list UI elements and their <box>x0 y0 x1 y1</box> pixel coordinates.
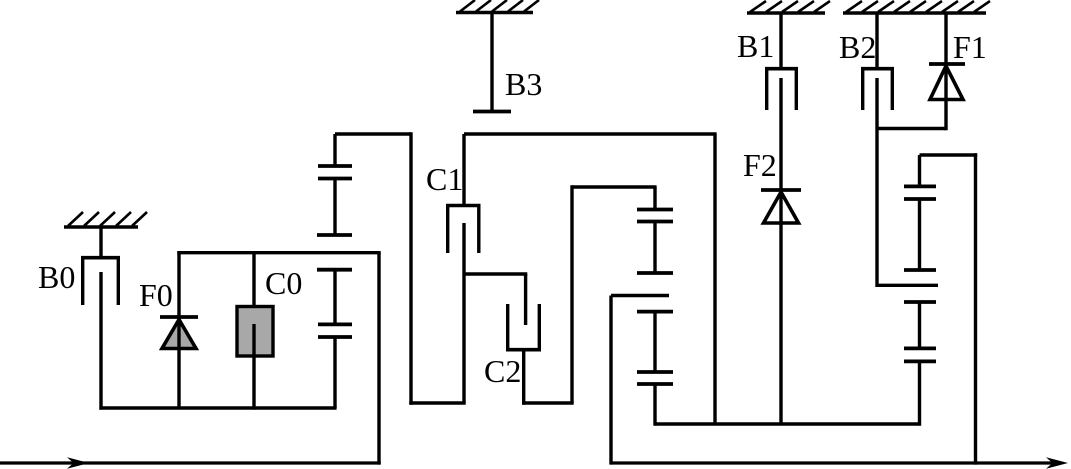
input shaft (arrow) <box>0 457 381 468</box>
brake B3 (stem and plate over rail) <box>473 13 511 112</box>
clutch C2 (upward fork, plate from above) <box>464 274 574 405</box>
one-way clutch F2 <box>761 190 801 224</box>
brake B1 (fork and plate) <box>765 13 798 424</box>
one-way clutch F1 <box>929 13 965 130</box>
ground (B1 anchor) <box>747 1 830 13</box>
output shaft (arrow) <box>611 457 1068 468</box>
node (ring link to output, x=611) <box>611 296 669 465</box>
ground (B3 anchor) <box>456 0 539 13</box>
svg-text:B1: B1 <box>737 28 774 64</box>
one-way clutch F0 (gray) <box>160 251 198 408</box>
clutch pack column (left, x=335) <box>317 134 411 408</box>
wire (riser x=411 and bottom jog to C1 plate) <box>409 132 465 404</box>
clutch pack column (middle, x=655) <box>637 187 673 426</box>
svg-text:B0: B0 <box>38 259 75 295</box>
svg-text:B3: B3 <box>505 66 542 102</box>
wire (riser x=715 from top rail to bus) <box>713 134 716 424</box>
wire (top rail input drum to C1/B3/F) <box>464 132 717 135</box>
svg-text:C1: C1 <box>426 161 463 197</box>
clutch C1 (fork and plate) <box>446 134 481 403</box>
clutch C0 (gray block) <box>237 251 273 410</box>
wire (hub bus under B0/F0/C0) <box>99 406 336 409</box>
wire (riser x=572 to mid rail) <box>572 185 657 403</box>
svg-text:F0: F0 <box>139 277 173 313</box>
svg-text:F2: F2 <box>743 147 777 183</box>
wire (lower bus 655-919) <box>655 422 919 425</box>
wire (riser x=975.5 to output) <box>974 153 977 464</box>
brake B2 (fork and plate) <box>861 13 894 287</box>
svg-text:C0: C0 <box>265 265 302 301</box>
brake B0 (fork and plate) <box>81 227 120 410</box>
ground (B0 anchor) <box>64 212 147 227</box>
clutch pack column (right, x=920) <box>877 155 977 426</box>
svg-text:C2: C2 <box>484 353 521 389</box>
svg-text:B2: B2 <box>839 29 876 65</box>
wire (B2-F1 junction) <box>877 127 946 130</box>
wire (drum box: top and right side, input riser) <box>177 253 380 465</box>
svg-text:F1: F1 <box>953 29 987 65</box>
ground (B2/F1 anchor) <box>843 1 990 13</box>
